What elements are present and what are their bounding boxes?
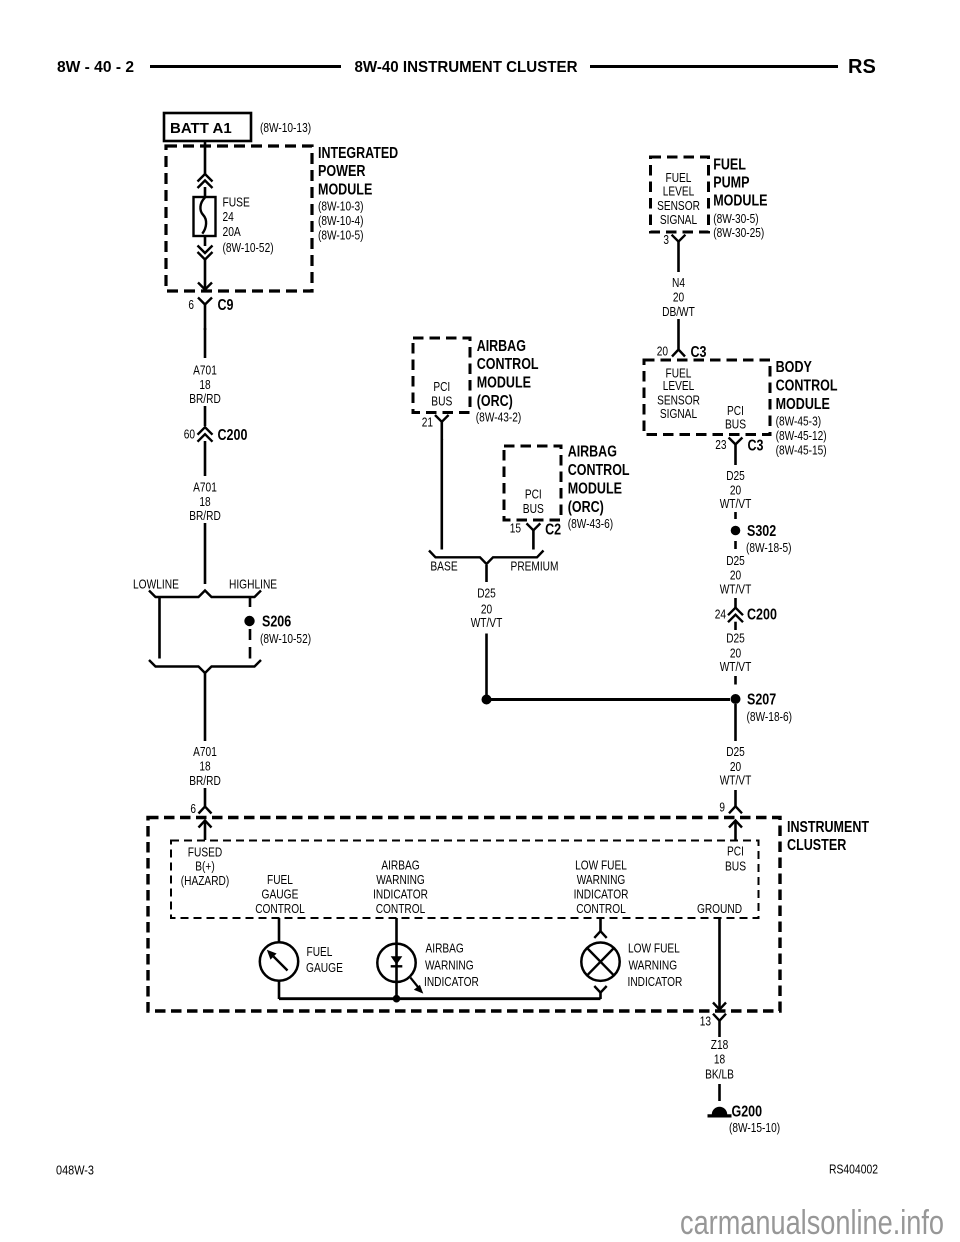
svg-text:(8W-18-6): (8W-18-6) [747,709,793,724]
svg-text:(8W-45-3): (8W-45-3) [776,414,822,429]
premium label [511,559,559,574]
svg-text:23: 23 [715,437,726,452]
svg-text:(8W-45-15): (8W-45-15) [776,442,827,457]
header rule right [590,65,838,68]
indicator return bus wire [279,997,601,1000]
svg-text:LOWLINE: LOWLINE [133,577,179,592]
fuse top terminal chevrons [198,174,213,188]
svg-text:BR/RD: BR/RD [189,391,221,406]
svg-text:D25: D25 [726,553,745,568]
S207 left junction dot [482,695,492,705]
svg-text:9: 9 [719,800,725,815]
ground exit arrow [713,1003,726,1010]
airbag control module (ORC) base label [476,338,539,425]
airbag warning indicator control label [373,857,428,916]
wire label N4 20 DB/WT [662,275,695,319]
wire label D25 20 WT/VT (2) [720,553,752,596]
connector C3 pin 23 [715,437,763,465]
svg-text:BUS: BUS [431,394,452,409]
wire N4 to C3 [677,319,680,349]
svg-text:HIGHLINE: HIGHLINE [229,577,277,592]
wire label to split [204,523,207,584]
wire low fuel indicator feed [594,918,606,938]
connector C9 pin 6 [188,297,233,330]
svg-text:AIRBAG: AIRBAG [568,444,617,461]
wire ACM base to merge [440,439,443,550]
svg-text:BR/RD: BR/RD [189,773,221,788]
wire label A701 18 BR/RD (1) [189,363,221,406]
wire label A701 18 BR/RD (3) [189,744,221,788]
svg-text:AIRBAG: AIRBAG [477,338,526,355]
svg-text:(8W-10-13): (8W-10-13) [260,120,311,135]
instrument cluster label [787,819,869,854]
fuel pump module label [713,156,768,240]
connector C3 pin 20 [657,343,707,361]
ground label [697,901,742,916]
connector C200 pin 24 [715,606,777,623]
svg-text:FUEL: FUEL [307,944,333,959]
svg-text:(8W-45-12): (8W-45-12) [776,428,827,443]
svg-text:24: 24 [715,606,726,621]
svg-text:BUS: BUS [523,501,544,516]
svg-text:CONTROL: CONTROL [477,356,539,373]
svg-text:(HAZARD): (HAZARD) [181,873,229,888]
svg-text:carmanualsonline.info: carmanualsonline.info [680,1204,944,1242]
svg-text:LEVEL: LEVEL [663,378,695,393]
svg-text:POWER: POWER [318,163,366,180]
wire fuel gauge feed [278,918,281,943]
base/premium merge brace [429,551,544,565]
airbag control module (ORC) premium box [504,446,561,520]
wire below C200 right [734,622,737,630]
svg-text:LEVEL: LEVEL [663,184,695,199]
svg-text:20A: 20A [223,224,242,239]
svg-text:INTEGRATED: INTEGRATED [318,145,398,162]
wire C200 to label [204,441,207,476]
svg-text:18: 18 [714,1052,725,1067]
wire fuse to IPM edge with arrow [198,259,212,290]
svg-text:(8W-10-52): (8W-10-52) [260,631,311,646]
svg-text:20: 20 [730,568,741,583]
connector C200 pin 60 [184,427,248,444]
svg-text:N4: N4 [672,275,685,290]
svg-text:WARNING: WARNING [629,957,678,972]
svg-text:RS404002: RS404002 [829,1162,878,1177]
svg-text:GAUGE: GAUGE [306,960,343,975]
footer drawing number [829,1162,878,1177]
svg-text:PCI: PCI [525,487,542,502]
low fuel warning indicator label [628,941,683,989]
svg-text:6: 6 [188,297,194,312]
svg-text:C200: C200 [218,427,248,444]
airbag warning indicator label [424,941,479,989]
svg-text:18: 18 [199,759,210,774]
header RS [848,56,876,78]
svg-text:SIGNAL: SIGNAL [660,212,697,227]
svg-text:A701: A701 [193,744,217,759]
svg-text:PREMIUM: PREMIUM [511,559,559,574]
watermark [680,1204,944,1242]
svg-text:RS: RS [848,56,876,78]
svg-text:FUEL: FUEL [713,156,746,173]
svg-text:8W - 40 - 2: 8W - 40 - 2 [57,59,134,76]
wire C9 to C200 [204,328,207,358]
splice S206 [244,614,291,631]
low fuel lamp bottom connector [594,986,606,999]
wire chevrons to fuse [204,187,207,198]
header page number [57,59,134,76]
cluster pin 9 entry arrow [729,821,742,841]
fused B(+) label [181,845,229,889]
svg-text:(8W-15-10): (8W-15-10) [729,1120,780,1135]
svg-text:AIRBAG: AIRBAG [381,857,419,872]
cluster connector pin 13 [700,1014,726,1038]
integrated power module box [166,146,312,291]
svg-text:CONTROL: CONTROL [568,462,630,479]
svg-text:(8W-10-3): (8W-10-3) [318,199,364,214]
svg-text:C200: C200 [747,607,777,624]
airbag warning indicator LED [377,944,423,994]
svg-text:(ORC): (ORC) [477,393,513,410]
svg-text:INSTRUMENT: INSTRUMENT [787,819,869,836]
fuel gauge control label [255,872,305,916]
wire merge stem [485,565,488,582]
low fuel warning indicator control label [574,857,629,916]
svg-text:PUMP: PUMP [713,174,750,191]
pci bus label [725,843,746,873]
svg-text:MODULE: MODULE [477,375,532,392]
highline label [229,577,277,592]
header title [355,59,578,76]
svg-text:C2: C2 [545,522,561,539]
svg-text:D25: D25 [477,586,496,601]
svg-text:BR/RD: BR/RD [189,508,221,523]
svg-text:(8W-10-4): (8W-10-4) [318,213,364,228]
svg-text:048W-3: 048W-3 [56,1163,94,1178]
svg-text:(8W-30-25): (8W-30-25) [713,225,764,240]
airbag control module (ORC) base box [413,338,470,413]
wire label D25 20 WT/VT (base) [471,586,503,631]
svg-text:BASE: BASE [430,559,458,574]
svg-text:21: 21 [422,415,433,430]
wire to S207 [734,676,737,685]
svg-text:LOW FUEL: LOW FUEL [575,857,627,872]
svg-text:BUS: BUS [725,859,746,874]
integrated power module label [318,145,398,243]
svg-text:A701: A701 [193,480,217,495]
svg-text:D25: D25 [726,630,745,645]
svg-text:S206: S206 [262,614,291,631]
svg-text:CONTROL: CONTROL [576,901,626,916]
ground G200 page ref [729,1120,780,1135]
svg-text:60: 60 [184,427,195,442]
wire split to cluster [204,673,207,741]
splice S207 [731,691,777,708]
svg-text:LOW FUEL: LOW FUEL [628,941,680,956]
svg-text:20: 20 [657,343,668,358]
wire label D25 20 WT/VT (4) [720,744,752,787]
wire label A701 18 BR/RD (2) [189,480,221,523]
svg-text:18: 18 [199,494,210,509]
wire to cluster pin 6 [204,788,207,806]
svg-text:MODULE: MODULE [568,480,623,497]
svg-text:WT/VT: WT/VT [720,659,752,674]
svg-text:MODULE: MODULE [318,182,373,199]
svg-text:INDICATOR: INDICATOR [373,887,428,902]
S207 horizontal wire [488,698,730,701]
fuse 24 label [223,195,274,255]
svg-text:CLUSTER: CLUSTER [787,837,847,854]
base label [430,559,458,574]
wire label D25 20 WT/VT (3) [720,630,752,673]
wire S207 down [734,704,737,741]
svg-text:WT/VT: WT/VT [720,772,752,787]
cluster connector pin 6 [190,801,211,816]
wire to C200 [204,406,207,426]
svg-text:GAUGE: GAUGE [262,887,299,902]
svg-text:CONTROL: CONTROL [776,377,838,394]
svg-text:CONTROL: CONTROL [255,901,305,916]
svg-text:G200: G200 [732,1103,763,1120]
footer sheet number [56,1163,94,1178]
svg-text:WARNING: WARNING [376,872,425,887]
svg-text:PCI: PCI [727,843,744,858]
instrument cluster box [148,818,780,1012]
svg-text:C3: C3 [691,344,707,361]
connector C2 pin 15 [510,521,561,550]
svg-text:WARNING: WARNING [577,872,626,887]
splice S302 page ref [746,540,792,555]
splice S206 page ref [260,631,311,646]
svg-text:B(+): B(+) [195,859,214,874]
svg-text:C3: C3 [748,437,764,454]
splice S302 [731,523,777,540]
svg-text:(8W-43-2): (8W-43-2) [476,409,522,424]
wire BATT A1 to fuse [204,141,207,175]
split brace top [149,591,261,598]
svg-text:FUSED: FUSED [188,845,222,860]
ground G200 [708,1103,763,1120]
svg-text:BUS: BUS [725,416,746,431]
svg-text:Z18: Z18 [711,1037,729,1052]
wire to S302 [734,512,737,519]
svg-text:15: 15 [510,521,521,536]
wire to cluster pin 9 [734,790,737,806]
svg-text:WT/VT: WT/VT [471,615,503,630]
wire merge to splice S207 [485,634,488,697]
header rule left [150,65,341,68]
svg-text:INDICATOR: INDICATOR [424,974,479,989]
svg-text:DB/WT: DB/WT [662,304,695,319]
svg-text:8W-40 INSTRUMENT CLUSTER: 8W-40 INSTRUMENT CLUSTER [355,59,578,76]
svg-text:(8W-30-5): (8W-30-5) [713,211,759,226]
fuel gauge label [306,944,343,975]
cluster pin 6 entry arrow [199,821,212,841]
wire airbag indicator feed [395,918,398,999]
svg-text:WARNING: WARNING [425,957,474,972]
svg-text:D25: D25 [726,744,745,759]
svg-text:INDICATOR: INDICATOR [574,887,629,902]
svg-text:13: 13 [700,1014,711,1029]
cluster connector pin 9 [719,800,742,815]
svg-text:(ORC): (ORC) [568,499,604,516]
wire label Z18 18 BK/LB [705,1037,734,1082]
svg-text:BATT A1: BATT A1 [170,120,232,137]
split brace bottom [149,660,261,673]
wire to C200 right [734,598,737,609]
junction dot airbag to bus [393,995,401,1003]
svg-text:(8W-10-5): (8W-10-5) [318,227,364,242]
low fuel warning indicator lamp [581,943,619,981]
svg-text:FUSE: FUSE [223,195,251,210]
connector pin 3 fuel pump [663,232,685,272]
splice S207 page ref [747,709,793,724]
svg-text:(8W-18-5): (8W-18-5) [746,540,792,555]
svg-text:FUEL: FUEL [267,872,293,887]
svg-text:WT/VT: WT/VT [720,496,752,511]
svg-text:D25: D25 [726,468,745,483]
svg-text:BK/LB: BK/LB [705,1066,734,1081]
svg-text:24: 24 [223,209,234,224]
lowline label [133,577,179,592]
lowline branch wire [158,598,161,659]
wire ground [718,918,721,1008]
svg-text:(8W-43-6): (8W-43-6) [568,516,614,531]
fuel gauge [260,942,298,980]
wire to ground G200 [718,1084,721,1101]
svg-text:GROUND: GROUND [697,901,742,916]
svg-text:SIGNAL: SIGNAL [660,406,697,421]
body control module box [644,360,770,435]
fuse 24 element [194,197,216,236]
svg-text:AIRBAG: AIRBAG [426,941,464,956]
svg-text:C9: C9 [218,297,234,314]
svg-text:S302: S302 [747,523,776,540]
svg-text:MODULE: MODULE [713,192,768,209]
airbag control module (ORC) premium label [568,444,630,531]
svg-text:A701: A701 [193,363,217,378]
wire label D25 20 WT/VT (1) [720,468,752,511]
highline branch wire (dashed) [249,598,252,659]
BATT A1 page ref [260,120,311,135]
svg-text:(8W-10-52): (8W-10-52) [223,240,274,255]
connector pin 21 ACM base [422,415,449,440]
svg-text:20: 20 [673,289,684,304]
svg-text:CONTROL: CONTROL [376,901,426,916]
svg-text:WT/VT: WT/VT [720,581,752,596]
svg-text:6: 6 [190,801,196,816]
svg-text:BODY: BODY [776,359,813,376]
svg-text:S207: S207 [747,691,776,708]
body control module label [776,359,838,458]
svg-text:MODULE: MODULE [776,396,831,413]
BATT A1 feed box [164,113,251,141]
wire fuel gauge to bus [278,981,281,999]
svg-text:INDICATOR: INDICATOR [628,974,683,989]
svg-text:18: 18 [199,377,210,392]
svg-text:3: 3 [663,232,669,247]
cluster inner function box [171,841,759,919]
fuel pump module box [651,157,709,232]
svg-text:SENSOR: SENSOR [657,198,700,213]
fuse bottom terminal chevrons [198,236,213,260]
wire below S302 [734,541,737,549]
svg-text:PCI: PCI [433,379,450,394]
